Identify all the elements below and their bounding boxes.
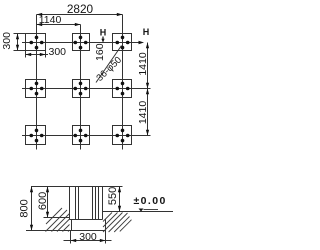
pad A1 anchor bolts	[30, 36, 44, 50]
row grid line row1	[22, 42, 141, 44]
pad C1 anchor bolts	[30, 129, 44, 143]
excavation bottom line	[26, 230, 106, 232]
level symbol triangle	[139, 209, 144, 212]
section mark H left	[100, 28, 107, 43]
bolt sleeve line 5	[98, 187, 100, 220]
pad C2 anchor bolts	[74, 129, 88, 143]
footing pad B2 square	[73, 80, 90, 98]
svg-text:H: H	[100, 28, 107, 38]
svg-text:1140: 1140	[39, 14, 62, 26]
svg-text:2820: 2820	[67, 2, 94, 16]
pit bottom line left	[44, 217, 70, 219]
footing pad A1 square	[26, 34, 46, 51]
pier bottom line	[70, 219, 103, 221]
svg-text:300: 300	[49, 46, 67, 58]
row grid line row2	[22, 88, 151, 90]
pier wall left	[69, 187, 71, 220]
section direction arrow at right end of row1 line	[139, 41, 145, 44]
svg-text:1410: 1410	[137, 101, 149, 125]
footing block right edge	[105, 220, 107, 231]
ground hatch left	[46, 208, 70, 232]
pad C3 anchor bolts	[116, 129, 130, 143]
dimension 300 bottom	[64, 231, 112, 244]
leader line for bolt-hole note	[96, 46, 122, 83]
pad A2 anchor bolts	[74, 36, 88, 50]
column grid line col2	[80, 25, 82, 150]
pad A3 anchor bolts	[116, 36, 130, 50]
footing block left edge	[71, 220, 73, 231]
dimension 800	[18, 187, 33, 231]
bolt sleeve line 1	[75, 187, 77, 220]
footing pad C2 square	[73, 126, 90, 145]
dimension 1410 upper + lower	[137, 43, 149, 136]
dimension 300 left (pad height)	[1, 32, 26, 51]
svg-text:160: 160	[94, 43, 106, 61]
pad B1 anchor bolts	[30, 82, 44, 96]
column grid line col3	[122, 15, 124, 150]
footing pad B1 square	[26, 80, 46, 98]
svg-text:300: 300	[79, 231, 97, 243]
bolt sleeve line 4	[95, 187, 97, 220]
column grid line col1	[36, 15, 38, 150]
bolt sleeve line 3	[92, 187, 94, 220]
level symbol tail line	[144, 209, 159, 211]
dimension 1140	[37, 14, 81, 26]
svg-text:300: 300	[1, 32, 13, 50]
dimension 300 (pad width, row1 col1)	[26, 46, 67, 58]
dimension 2820 top	[37, 2, 123, 16]
pad B3 anchor bolts	[116, 82, 130, 96]
footing pad C1 square	[26, 126, 46, 145]
ground line right	[103, 211, 174, 213]
svg-text:800: 800	[18, 199, 30, 217]
bolt sleeve line 2	[78, 187, 80, 220]
row grid line row3	[22, 135, 151, 137]
pier top line	[31, 186, 103, 188]
ground hatch right	[103, 213, 132, 233]
footing pad A2 square	[73, 34, 90, 51]
dimension 550	[103, 187, 123, 212]
dimension 600	[37, 187, 49, 218]
pier wall right	[102, 187, 104, 220]
svg-text:H: H	[143, 27, 150, 37]
pad B2 anchor bolts	[74, 82, 88, 96]
svg-text:±0.00: ±0.00	[134, 195, 167, 207]
svg-text:550: 550	[107, 187, 119, 205]
footing pad C3 square	[113, 126, 132, 145]
svg-text:1410: 1410	[137, 52, 149, 76]
footing pad A3 square	[113, 34, 132, 51]
footing pad B3 square	[113, 80, 132, 98]
svg-text:600: 600	[37, 192, 49, 210]
